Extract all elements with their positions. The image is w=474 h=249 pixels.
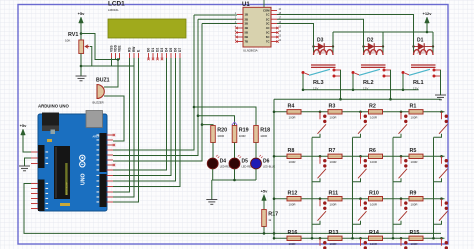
node row 3 left rail [273, 197, 276, 200]
resistor R16 [287, 230, 301, 246]
svg-text:D5: D5 [242, 159, 249, 165]
Arduino logo and UNO silkscreen [80, 155, 87, 185]
unconnected U1 output pin mark [276, 40, 278, 42]
wire LCD D6 to Arduino [113, 58, 176, 181]
svg-text:6B: 6B [245, 35, 249, 39]
svg-text:100R: 100R [289, 160, 296, 164]
svg-text:100R: 100R [370, 116, 377, 120]
node left rail bottom bus [273, 232, 276, 235]
svg-text:R14: R14 [369, 230, 379, 236]
svg-text:+5v: +5v [261, 189, 269, 194]
LED D5 red [229, 155, 253, 169]
node branch to R20 [201, 123, 204, 126]
svg-text:+5v: +5v [20, 123, 28, 128]
LCD1 pins VSS VDD VEE RS RW E D0-D7 [112, 53, 181, 58]
svg-text:100R: 100R [289, 116, 296, 120]
node R17 on bottom bus [263, 232, 266, 235]
svg-text:+12v: +12v [422, 11, 432, 16]
node buzzer on +5V rail [117, 58, 120, 61]
ground below LEDs [206, 200, 217, 205]
wire D6 cathode down [255, 169, 257, 180]
svg-text:RL1: RL1 [413, 80, 424, 86]
power +5V supply arrow for RV1 [78, 11, 86, 23]
svg-text:R11: R11 [329, 191, 339, 197]
wire RL2 coil right leg [382, 32, 384, 55]
wire LCD RS to Arduino [113, 58, 130, 192]
svg-text:100R: 100R [330, 203, 337, 207]
Arduino reset button [51, 130, 56, 135]
push button switch row3 col2 [358, 199, 367, 221]
svg-text:7B: 7B [245, 40, 249, 44]
svg-text:D6: D6 [174, 48, 178, 52]
wire branch to R18 top [194, 107, 256, 126]
wire switch r1c3 to column [393, 134, 401, 138]
unconnected U1 input pin mark [235, 36, 237, 38]
buzzer BUZ1 [93, 78, 110, 105]
svg-text:RV1: RV1 [68, 32, 78, 38]
U1 pins 1B-7B COM 1C-7C [237, 0, 277, 42]
push button switch row4 col3 [399, 238, 408, 249]
wire D5 cathode down [234, 169, 236, 180]
resistor R19 [232, 126, 248, 143]
push button switch row4 col1 [318, 238, 327, 249]
resistor R11 [328, 191, 342, 207]
wire RL3 coil right leg [332, 32, 334, 55]
resistor R6 [369, 148, 383, 164]
origin marker diamond [232, 122, 237, 127]
wire LCD E to Arduino [113, 58, 139, 202]
Arduino right pin stubs digital pins [107, 135, 114, 202]
unconnected LCD data pin mark [156, 58, 158, 60]
wire switch r2c3 to column [393, 178, 401, 182]
svg-text:BUZZER: BUZZER [93, 101, 104, 105]
svg-text:D7: D7 [178, 48, 182, 52]
ground below RV1 [76, 76, 87, 81]
wire branch to R20 top [202, 124, 213, 127]
node row4 switch 4 [440, 237, 443, 240]
wire LCD D4 to Arduino [113, 58, 167, 170]
svg-text:+5v: +5v [78, 11, 86, 16]
wire RV1 wiper down [90, 47, 92, 67]
wire matrix column 4 [433, 138, 435, 239]
wire matrix row 2 [274, 155, 445, 157]
push button switch row1 col3 [399, 112, 408, 134]
wire RV1 bottom to ground [80, 54, 82, 77]
node RV1 gnd rail junction [80, 65, 83, 68]
svg-text:100R: 100R [370, 242, 377, 246]
node row1 switch 3 [400, 111, 403, 114]
svg-text:100R: 100R [411, 160, 418, 164]
push button switch row2 col4 [439, 156, 448, 178]
resistor R9 [409, 191, 423, 207]
Arduino right pin headers [93, 133, 107, 207]
svg-text:100R: 100R [330, 116, 337, 120]
wire RL2 coil left leg [363, 42, 365, 55]
node row3 switch 3 [400, 197, 403, 200]
svg-text:R20: R20 [217, 128, 227, 134]
svg-text:3B: 3B [245, 22, 249, 26]
wire RL1 coil right leg [432, 32, 434, 55]
relay RL1 coil 12V [411, 50, 436, 68]
push button switch row1 col1 [318, 112, 327, 134]
wire left rail to row4 [273, 233, 275, 238]
wire switch r1c1 to column [312, 134, 320, 138]
svg-text:100R: 100R [411, 116, 418, 120]
wire branch to R19 top [198, 116, 235, 126]
LED D4 red [207, 155, 231, 169]
wire buzzer + to +5V rail [104, 60, 118, 88]
node row4 switch 1 [319, 237, 322, 240]
Arduino left pin stubs analog and power [31, 152, 38, 209]
unconnected U1 output pin mark [276, 36, 278, 38]
wire cathode rail to ground [211, 180, 213, 200]
svg-text:100R: 100R [370, 203, 377, 207]
push button switch row2 col1 [318, 156, 327, 178]
diode D2 1N4007 [362, 38, 384, 55]
driver IC U1 ULN2803A [242, 2, 271, 52]
ground at RL1 contact [435, 95, 446, 100]
resistor R15 [409, 230, 423, 246]
wire Arduino A0 keypad sense line bottom bus [24, 184, 441, 234]
wire Arduino D? to ULN 2B vertical [113, 19, 198, 155]
push button switch row1 col2 [358, 112, 367, 134]
wire relay contact rail [274, 98, 441, 100]
unconnected U1 output pin mark [276, 27, 278, 29]
node row1 switch 4 [440, 111, 443, 114]
wire buzzer - to Arduino pin [104, 96, 124, 141]
resistor R5 [409, 148, 423, 164]
node RL2 pole rail [352, 89, 355, 92]
resistor R8 [287, 148, 301, 164]
svg-text:VEE: VEE [118, 45, 122, 52]
wire matrix row 4 [274, 237, 445, 239]
node column 2 row4 [351, 237, 354, 240]
wire LED cathode rail [212, 179, 256, 181]
wire LCD D7 to Arduino [113, 58, 180, 187]
svg-text:R6: R6 [369, 148, 376, 154]
svg-text:D4: D4 [165, 48, 169, 52]
svg-text:UNO: UNO [81, 173, 87, 185]
wire to U1 pin 3B [202, 23, 237, 25]
push button switch row3 col1 [318, 199, 327, 221]
node row2 switch 3 [400, 155, 403, 158]
node row2 switch 4 [440, 155, 443, 158]
svg-text:100R: 100R [289, 203, 296, 207]
node row3 switch 4 [440, 197, 443, 200]
node column 1 row4 [311, 237, 314, 240]
node RL3 pole rail [302, 89, 305, 92]
node row4 switch 2 [359, 237, 362, 240]
unconnected Arduino pin mark [113, 144, 115, 146]
LED D6 blue [251, 155, 276, 169]
svg-text:R7: R7 [329, 148, 336, 154]
svg-text:R12: R12 [288, 191, 298, 197]
wire R17 to sense bus [263, 227, 265, 234]
svg-text:R13: R13 [329, 230, 339, 236]
wire U1 1C to RL1 drive [277, 15, 414, 43]
svg-text:100R: 100R [411, 242, 418, 246]
diode D1 1N4007 [412, 38, 434, 55]
Arduino Uno board ARD1 [38, 104, 107, 212]
resistor R4 [287, 104, 301, 120]
unconnected U1 input pin mark [235, 31, 237, 33]
node row 2 left rail [273, 155, 276, 158]
node row1 switch 2 [359, 111, 362, 114]
svg-text:D3: D3 [317, 38, 324, 44]
potentiometer RV1 [65, 32, 90, 53]
wire matrix row 1 [274, 111, 445, 113]
unconnected U1 output pin mark [276, 31, 278, 33]
svg-text:7C: 7C [266, 40, 270, 44]
wire LCD RW to Arduino [113, 58, 134, 197]
svg-text:100R: 100R [289, 242, 296, 246]
unconnected Arduino AREF pin mark [113, 134, 115, 136]
svg-text:100R: 100R [217, 134, 224, 138]
wire LCD D5 to Arduino [113, 58, 171, 176]
wire RL3 coil left leg [313, 42, 315, 55]
node cathode rail D5 [233, 179, 236, 182]
LCD display LCD1 LM016L [108, 1, 186, 39]
svg-text:R4: R4 [288, 104, 295, 110]
svg-text:1B: 1B [245, 13, 249, 17]
wire RL1 pole to rail [402, 74, 404, 90]
svg-text:RL2: RL2 [363, 80, 374, 86]
wire +5V to RV1 top [80, 22, 82, 40]
unconnected LCD data pin mark [161, 58, 163, 60]
svg-text:R3: R3 [329, 104, 336, 110]
svg-text:D1: D1 [151, 48, 155, 52]
relay RL2 contacts [352, 69, 392, 91]
wire to U1 pin 2B [198, 18, 237, 20]
node RL2 contact rail [389, 98, 392, 101]
resistor R12 [287, 191, 301, 207]
node column 4 row4 [432, 237, 435, 240]
wire RL1 contact to ground [440, 70, 442, 95]
wire relay pole rail [303, 89, 419, 91]
push button switch row3 col4 [439, 199, 448, 221]
svg-text:D6: D6 [263, 159, 270, 165]
wire D4 cathode down [212, 169, 214, 180]
svg-text:6C: 6C [266, 35, 270, 39]
wire LCD VEE [119, 58, 121, 60]
node row3 switch 1 [319, 197, 322, 200]
wire matrix column 3 [392, 138, 394, 239]
unconnected Arduino pin mark [113, 164, 115, 166]
svg-text:3C: 3C [266, 22, 270, 26]
wire +5V to R17 [263, 200, 265, 210]
resistor R14 [369, 230, 383, 246]
ground at Arduino GND [19, 166, 30, 171]
push button switch row4 col2 [358, 238, 367, 249]
relay RL3 coil 12V [311, 50, 336, 68]
svg-text:LM016L: LM016L [108, 8, 119, 12]
wire ground rail to LCD VSS/RW [81, 65, 134, 67]
svg-text:D2: D2 [367, 38, 374, 44]
power +12V supply arrow [422, 11, 432, 23]
svg-text:RL3: RL3 [313, 80, 324, 86]
wire matrix row 3 [274, 198, 445, 200]
svg-text:100R: 100R [260, 134, 267, 138]
wire switch r2c1 to column [312, 178, 320, 182]
resistor R2 [369, 104, 383, 120]
push button switch row2 col3 [399, 156, 408, 178]
svg-text:D2: D2 [156, 48, 160, 52]
wire Arduino GND pin to ground [25, 158, 32, 166]
wire RL2 contact down [390, 70, 392, 99]
wire RL1 coil left leg [413, 42, 415, 55]
svg-text:R18: R18 [260, 128, 270, 134]
Arduino barrel jack [42, 113, 59, 132]
resistor R20 [211, 126, 227, 143]
node row2 switch 1 [319, 155, 322, 158]
wire U1 3C to RL3 drive [277, 24, 314, 43]
push button switch row1 col4 [439, 112, 448, 134]
wire Arduino D? to ULN 3B vertical [113, 24, 202, 162]
svg-text:R9: R9 [410, 191, 417, 197]
unconnected LCD data pin mark [147, 58, 149, 60]
svg-text:D1: D1 [417, 38, 424, 44]
svg-text:5B: 5B [245, 31, 249, 35]
wire RL2 pole to rail [352, 74, 354, 90]
wire R18 to D6 [255, 143, 257, 159]
resistor R10 [369, 191, 383, 207]
svg-text:100R: 100R [330, 160, 337, 164]
svg-text:D0: D0 [147, 48, 151, 52]
svg-text:10K: 10K [65, 39, 70, 43]
wire to U1 pin 1B [194, 14, 237, 16]
wire switch r1c2 to column [353, 134, 361, 138]
svg-text:R2: R2 [369, 104, 376, 110]
svg-text:BUZ1: BUZ1 [96, 78, 110, 84]
wire +5V to Arduino 5V pin [23, 135, 31, 153]
power +5V supply arrow at Arduino [20, 123, 28, 135]
wire matrix column 2 [352, 138, 354, 239]
node row 4 left rail [273, 237, 276, 240]
svg-text:R5: R5 [410, 148, 417, 154]
svg-text:D3: D3 [160, 48, 164, 52]
push button switch row3 col3 [399, 199, 408, 221]
svg-text:RW: RW [132, 46, 136, 52]
Arduino USB connector [86, 111, 103, 128]
push button switch row4 col4 [439, 238, 448, 249]
resistor R7 [328, 148, 342, 164]
wire U1 2C to RL2 drive [277, 19, 364, 42]
node row 1 left rail [273, 111, 276, 114]
svg-text:R8: R8 [288, 148, 295, 154]
wire switch r2c4 to column [434, 178, 442, 182]
svg-text:R19: R19 [239, 128, 249, 134]
svg-text:R15: R15 [410, 230, 420, 236]
Arduino left power header [38, 145, 45, 211]
svg-text:D5: D5 [169, 48, 173, 52]
wire switch r3c3 to column [393, 221, 401, 225]
node RL3 contact rail [339, 98, 342, 101]
unconnected U1 input pin mark [235, 40, 237, 42]
svg-text:ULN2803A: ULN2803A [243, 48, 258, 52]
resistor R1 [409, 104, 423, 120]
svg-text:100R: 100R [239, 134, 246, 138]
wire +12V arrow to coil rail [426, 23, 428, 32]
resistor R13 [328, 230, 342, 246]
node RL1 pole rail [402, 89, 405, 92]
power +5V supply arrow at R17 [261, 189, 269, 201]
node row3 switch 2 [359, 197, 362, 200]
svg-text:RS: RS [128, 47, 132, 52]
diode D3 1N4007 [312, 38, 334, 55]
svg-text:100R: 100R [330, 242, 337, 246]
relay RL1 contacts [402, 69, 442, 91]
wire switch r3c4 to column [434, 221, 442, 225]
wire switch r2c2 to column [353, 178, 361, 182]
wire RL3 pole to rail [302, 74, 304, 90]
resistor R17 pull-up [262, 210, 278, 227]
svg-text:100R: 100R [370, 160, 377, 164]
resistor R18 [254, 126, 270, 143]
wire RL3 contact down [340, 70, 342, 99]
wire R20 to D4 [212, 143, 214, 159]
wire LCD VSS to gnd rail [111, 58, 113, 66]
unconnected LCD data pin mark [152, 58, 154, 60]
svg-text:5C: 5C [266, 31, 270, 35]
node branch to R18 [193, 106, 196, 109]
svg-text:R1: R1 [410, 104, 417, 110]
relay RL2 coil 12V [361, 50, 386, 68]
svg-text:ATMEGA328P: ATMEGA328P [65, 181, 68, 195]
node row1 switch 1 [319, 111, 322, 114]
svg-text:4B: 4B [245, 26, 249, 30]
Arduino gold pads [47, 139, 70, 206]
svg-text:R17: R17 [268, 212, 278, 218]
wire matrix column 1 [311, 138, 313, 239]
wire R19 to D5 [234, 143, 236, 159]
wire +5V rail to LCD VDD/VEE [81, 34, 120, 60]
svg-text:4C: 4C [266, 26, 270, 30]
svg-text:100R: 100R [411, 203, 418, 207]
wire switch r3c2 to column [353, 221, 361, 225]
wire switch r3c1 to column [312, 221, 320, 225]
svg-text:ARDUINO UNO: ARDUINO UNO [38, 104, 69, 109]
wire Arduino D? to ULN 1B vertical [113, 15, 194, 150]
svg-text:AREF: AREF [93, 135, 100, 139]
wire matrix left rail [273, 99, 275, 233]
wire LCD VDD [115, 58, 117, 60]
Arduino ATmega328 DIP chip [54, 146, 70, 199]
node +12V rail [426, 31, 429, 34]
node row2 switch 2 [359, 155, 362, 158]
wire +12V rail to relay coils [333, 31, 433, 33]
svg-text:R10: R10 [369, 191, 379, 197]
node RV1 top junction [80, 32, 83, 35]
Arduino silkscreen pin labels [46, 134, 100, 209]
svg-text:1C: 1C [266, 13, 270, 17]
node branch to R19 [197, 114, 200, 117]
svg-text:LCD1: LCD1 [108, 1, 125, 8]
svg-text:R16: R16 [288, 230, 298, 236]
svg-text:D4: D4 [220, 159, 227, 165]
unconnected U1 input pin mark [235, 27, 237, 29]
node row4 switch 3 [400, 237, 403, 240]
node column 3 row4 [392, 237, 395, 240]
push button switch row2 col2 [358, 156, 367, 178]
wire switch r1c4 to column [434, 134, 442, 138]
relay RL3 contacts [302, 69, 342, 91]
resistor R3 [328, 104, 342, 120]
